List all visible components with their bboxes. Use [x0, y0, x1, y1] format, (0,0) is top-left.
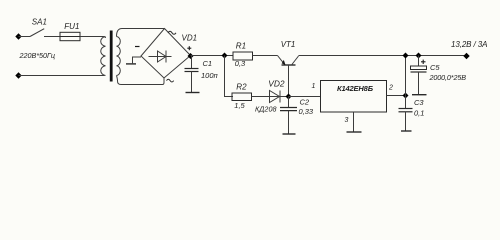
pin 2 label [388, 85, 393, 92]
node rail junction R2 branch [222, 53, 228, 59]
resistor R1 [233, 42, 253, 69]
svg-text:FU1: FU1 [64, 22, 79, 31]
bridge rectifier VD1 diamond [141, 29, 191, 79]
label 0,1 [414, 109, 424, 118]
svg-text:0,1: 0,1 [414, 109, 424, 118]
wire IC pin 2 to output node [387, 95, 406, 97]
ground under C2 [283, 133, 296, 135]
label C3 [414, 98, 424, 107]
main positive rail left part [191, 55, 234, 57]
resistor R2 [232, 83, 252, 111]
svg-text:C5: C5 [430, 63, 440, 72]
wire switch to fuse [44, 36, 60, 38]
svg-text:C1: C1 [203, 59, 213, 68]
svg-text:2: 2 [388, 85, 393, 92]
bridge minus terminal to ground [126, 57, 141, 64]
wire top input to switch [19, 36, 31, 38]
bridge AC mark top [168, 31, 176, 34]
wire R2 branch vertical [225, 56, 234, 97]
svg-text:VD2: VD2 [268, 79, 285, 89]
label C5 [430, 63, 440, 72]
label VD2 [268, 79, 285, 89]
bridge plus mark [187, 46, 191, 50]
svg-text:R2: R2 [236, 83, 247, 92]
node pin2 C3 junction [403, 93, 409, 99]
svg-text:100п: 100п [201, 71, 218, 80]
bridge AC mark bottom [167, 79, 174, 82]
node input terminal bottom [15, 72, 21, 78]
svg-text:0,33: 0,33 [299, 107, 314, 116]
wire fuse to transformer primary [80, 37, 106, 39]
wire R2 to VD2 [252, 96, 270, 98]
label 100n [201, 71, 218, 80]
label 220V 50Hz [19, 51, 56, 60]
capacitor C5 electrolytic [411, 56, 427, 95]
label 2000,0*25V [429, 73, 467, 82]
svg-text:КД208: КД208 [255, 105, 277, 114]
svg-text:К142ЕН8Б: К142ЕН8Б [337, 84, 374, 93]
svg-text:C2: C2 [300, 98, 310, 107]
svg-text:2000,0*25В: 2000,0*25В [429, 73, 467, 82]
bridge inner diode symbol [149, 51, 172, 63]
label VD1 [182, 33, 198, 42]
capacitor C1 [185, 56, 199, 93]
pin 1 label [312, 83, 316, 90]
node output terminal [463, 53, 469, 59]
svg-text:220В*50Гц: 220В*50Гц [19, 51, 56, 60]
svg-text:13,2В / 3А: 13,2В / 3А [451, 40, 488, 49]
node VD2 C2 base junction [286, 94, 292, 100]
main positive rail right part [299, 55, 467, 57]
wire R1 to VT1 emitter [253, 55, 278, 57]
ground under C3 [401, 130, 412, 132]
pin 3 lead [345, 112, 354, 132]
transformer core [110, 31, 113, 82]
node rail C5 branch [416, 53, 422, 59]
svg-text:SA1: SA1 [32, 17, 47, 26]
svg-text:C3: C3 [414, 98, 424, 107]
label C1 [203, 59, 213, 68]
svg-text:1: 1 [312, 83, 316, 90]
label output 13,2V 3A [451, 40, 488, 49]
label C2 [300, 98, 310, 107]
wire bottom input to transformer [19, 75, 105, 77]
ground under C1 [186, 92, 200, 94]
node input terminal top [15, 33, 21, 39]
capacitor C2 [280, 97, 297, 135]
transformer T1 primary winding [101, 37, 106, 76]
wire feedback rail to pin2 and C3 [405, 56, 407, 109]
wire junction to IC pin 1 [289, 96, 321, 98]
switch SA1 [30, 17, 47, 36]
fuse FU1 [60, 22, 80, 41]
wire secondary top to bridge [117, 29, 165, 37]
node bridge plus output [188, 53, 194, 59]
wire secondary bottom to bridge [117, 76, 165, 85]
bridge minus mark [135, 46, 140, 48]
svg-text:3: 3 [345, 117, 349, 124]
ground under C5 [412, 94, 427, 96]
ground under pin 3 [347, 131, 362, 133]
diode VD2 [270, 91, 289, 103]
node rail C3 branch [403, 53, 409, 59]
svg-text:1,5: 1,5 [234, 101, 245, 110]
capacitor C3 [399, 109, 413, 131]
svg-text:R1: R1 [236, 42, 246, 51]
svg-text:VT1: VT1 [281, 40, 296, 49]
label 0,33 [299, 107, 314, 116]
transformer T1 secondary winding [117, 37, 121, 76]
IC U1 K142EN8B [321, 81, 387, 113]
transistor VT1 [278, 40, 299, 96]
svg-text:VD1: VD1 [182, 33, 198, 42]
svg-text:0,3: 0,3 [235, 59, 246, 68]
label KD208 [255, 105, 277, 114]
